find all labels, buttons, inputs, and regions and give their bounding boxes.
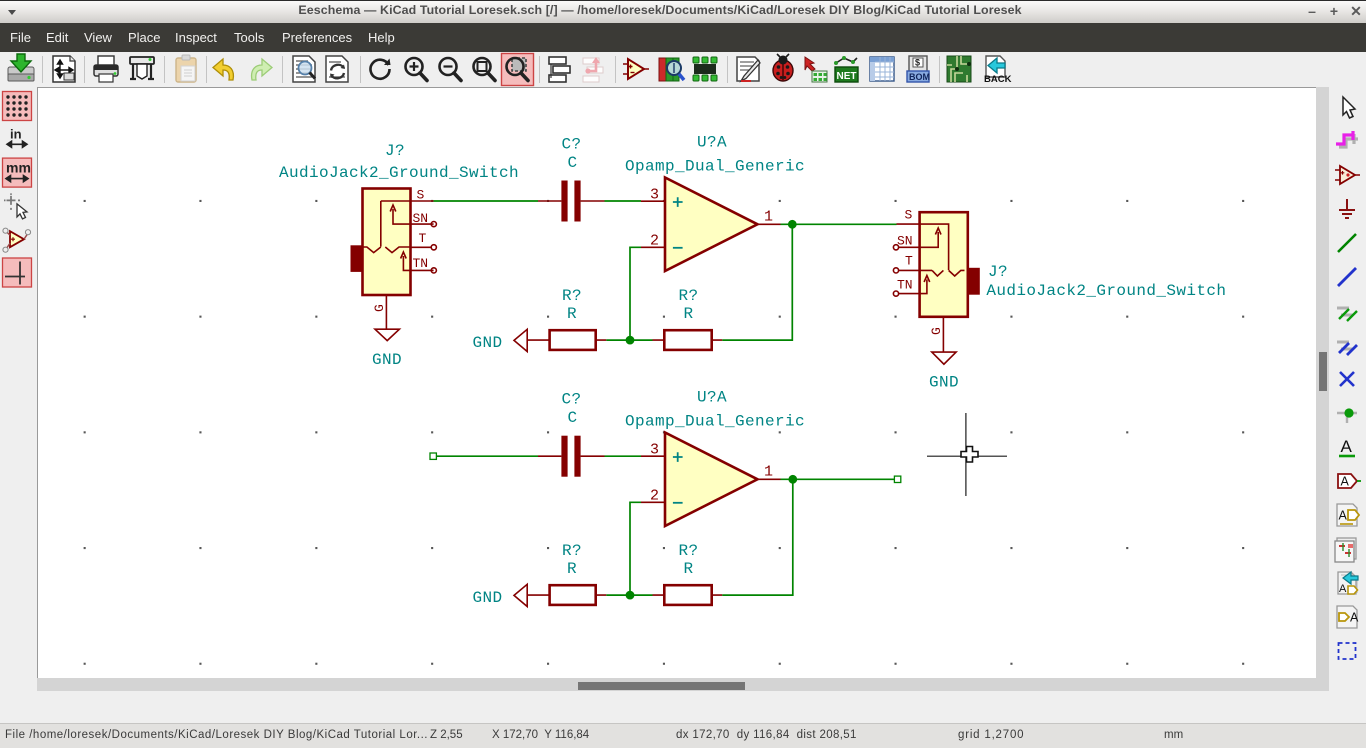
svg-text:1: 1 [764,209,773,226]
svg-text:TN: TN [897,278,913,293]
svg-text:C: C [568,409,578,427]
op-amp U1A Opamp_Dual_Generic [665,178,758,272]
svg-text:R: R [684,560,694,578]
svg-text:2: 2 [650,233,659,250]
svg-text:SN: SN [413,211,429,226]
pin S of J1 [381,188,434,203]
wire junction up to U1 pin 2 [630,247,641,340]
svg-text:Opamp_Dual_Generic: Opamp_Dual_Generic [625,158,805,176]
ground symbol GND1 below J1 [372,329,402,369]
svg-text:1: 1 [764,464,773,481]
svg-text:S: S [417,188,425,203]
svg-text:C?: C? [562,136,582,154]
svg-text:in: in [10,126,22,141]
svg-text:A: A [1350,611,1359,625]
pin TN of J2 [893,278,912,297]
wire J1.S to C1 [434,200,539,202]
pin 3 of U2 [641,442,665,459]
svg-text:T: T [419,231,427,246]
grid dots [84,200,1245,665]
junction at U1 output [788,220,797,229]
svg-text:G: G [929,327,944,335]
cursor crosshair [927,413,1007,496]
svg-text:3: 3 [650,187,659,204]
svg-text:U?A: U?A [697,134,727,152]
svg-text:3: 3 [650,442,659,459]
junction at U2 inverting node [626,591,635,600]
svg-text:A: A [1341,437,1353,456]
wire C2 to U2 pin 3 [605,455,642,457]
svg-text:NET: NET [837,71,857,82]
svg-text:mm: mm [6,160,31,176]
wire C1 to U1 pin 3 [605,200,642,202]
wire R2 to junction [630,339,653,341]
svg-text:A: A [1341,475,1350,489]
pin SN of J1 [413,211,437,227]
wire U1 output to J2.S [781,223,897,225]
ground symbol GND3 below J2 [929,352,959,391]
svg-text:BACK: BACK [984,74,1012,85]
svg-text:2: 2 [650,488,659,505]
pin T of J2 [893,253,932,273]
resistor R3 (to ground) [527,585,606,605]
pin G of J1 [372,295,387,329]
svg-text:C?: C? [562,391,582,409]
pin TN of J1 [413,256,437,273]
svg-text:R?: R? [562,542,582,560]
svg-text:A: A [1339,509,1348,523]
wire U2 output down to feedback R4 [722,479,793,595]
svg-text:R: R [684,305,694,323]
wire input to C2 [436,455,538,457]
junction at inverting input node [626,336,635,345]
wire junction to R3 [606,594,630,596]
resistor R2 (feedback) [653,330,723,350]
svg-text:$: $ [915,58,920,68]
pin 2 of U2 [641,488,665,505]
wire junction to R1 [606,339,630,341]
pin G of J2 [929,317,944,352]
pin 1 of U2 (output) [758,464,781,481]
svg-text:S: S [905,208,913,223]
svg-text:AudioJack2_Ground_Switch: AudioJack2_Ground_Switch [279,164,519,182]
svg-text:SN: SN [897,233,913,248]
svg-text:T: T [905,253,913,268]
svg-text:GND: GND [929,374,959,392]
svg-text:R?: R? [562,287,582,305]
wire U1 output down to feedback R2 [722,224,792,340]
wire R4 to junction [630,594,653,596]
pin 2 of U1 [641,233,665,250]
svg-text:Opamp_Dual_Generic: Opamp_Dual_Generic [625,413,805,431]
svg-text:C: C [568,154,578,172]
op-amp U2A Opamp_Dual_Generic [665,433,758,527]
svg-text:R?: R? [679,287,699,305]
svg-text:J?: J? [385,142,405,160]
connector J1 AudioJack2_Ground_Switch [351,189,434,296]
svg-text:GND: GND [372,351,402,369]
svg-text:R: R [567,560,577,578]
svg-text:AudioJack2_Ground_Switch: AudioJack2_Ground_Switch [986,282,1226,300]
pin SN of J2 [893,233,912,250]
pin 1 of U1 (output) [758,209,781,226]
resistor R4 (feedback) [653,585,723,605]
svg-text:A: A [1339,583,1347,595]
wire junction up to U2 pin 2 [630,502,641,595]
pin S of J2 [897,208,920,225]
resistor R1 (to ground) [527,330,606,350]
connector J2 AudioJack2_Ground_Switch (mirrored) [898,212,979,317]
svg-text:GND: GND [473,334,503,352]
pin 3 of U1 [641,187,665,204]
svg-text:G: G [372,304,387,312]
svg-text:R?: R? [679,542,699,560]
open wire end (bottom circuit output) [894,476,900,482]
open wire end (bottom circuit input) [430,453,436,459]
wire U2 output to open end [781,478,895,480]
ground flag GND4 at R3 [473,584,528,607]
svg-text:TN: TN [413,256,429,271]
junction at U2 output [788,475,797,484]
svg-text:U?A: U?A [697,389,727,407]
pin T of J1 [411,231,437,250]
svg-text:J?: J? [988,263,1008,281]
svg-text:R: R [567,305,577,323]
svg-text:BOM: BOM [909,72,930,82]
capacitor C2 [538,436,605,477]
ground flag GND2 at R1 [473,329,528,352]
capacitor C1 [538,181,605,222]
svg-text:GND: GND [473,589,503,607]
